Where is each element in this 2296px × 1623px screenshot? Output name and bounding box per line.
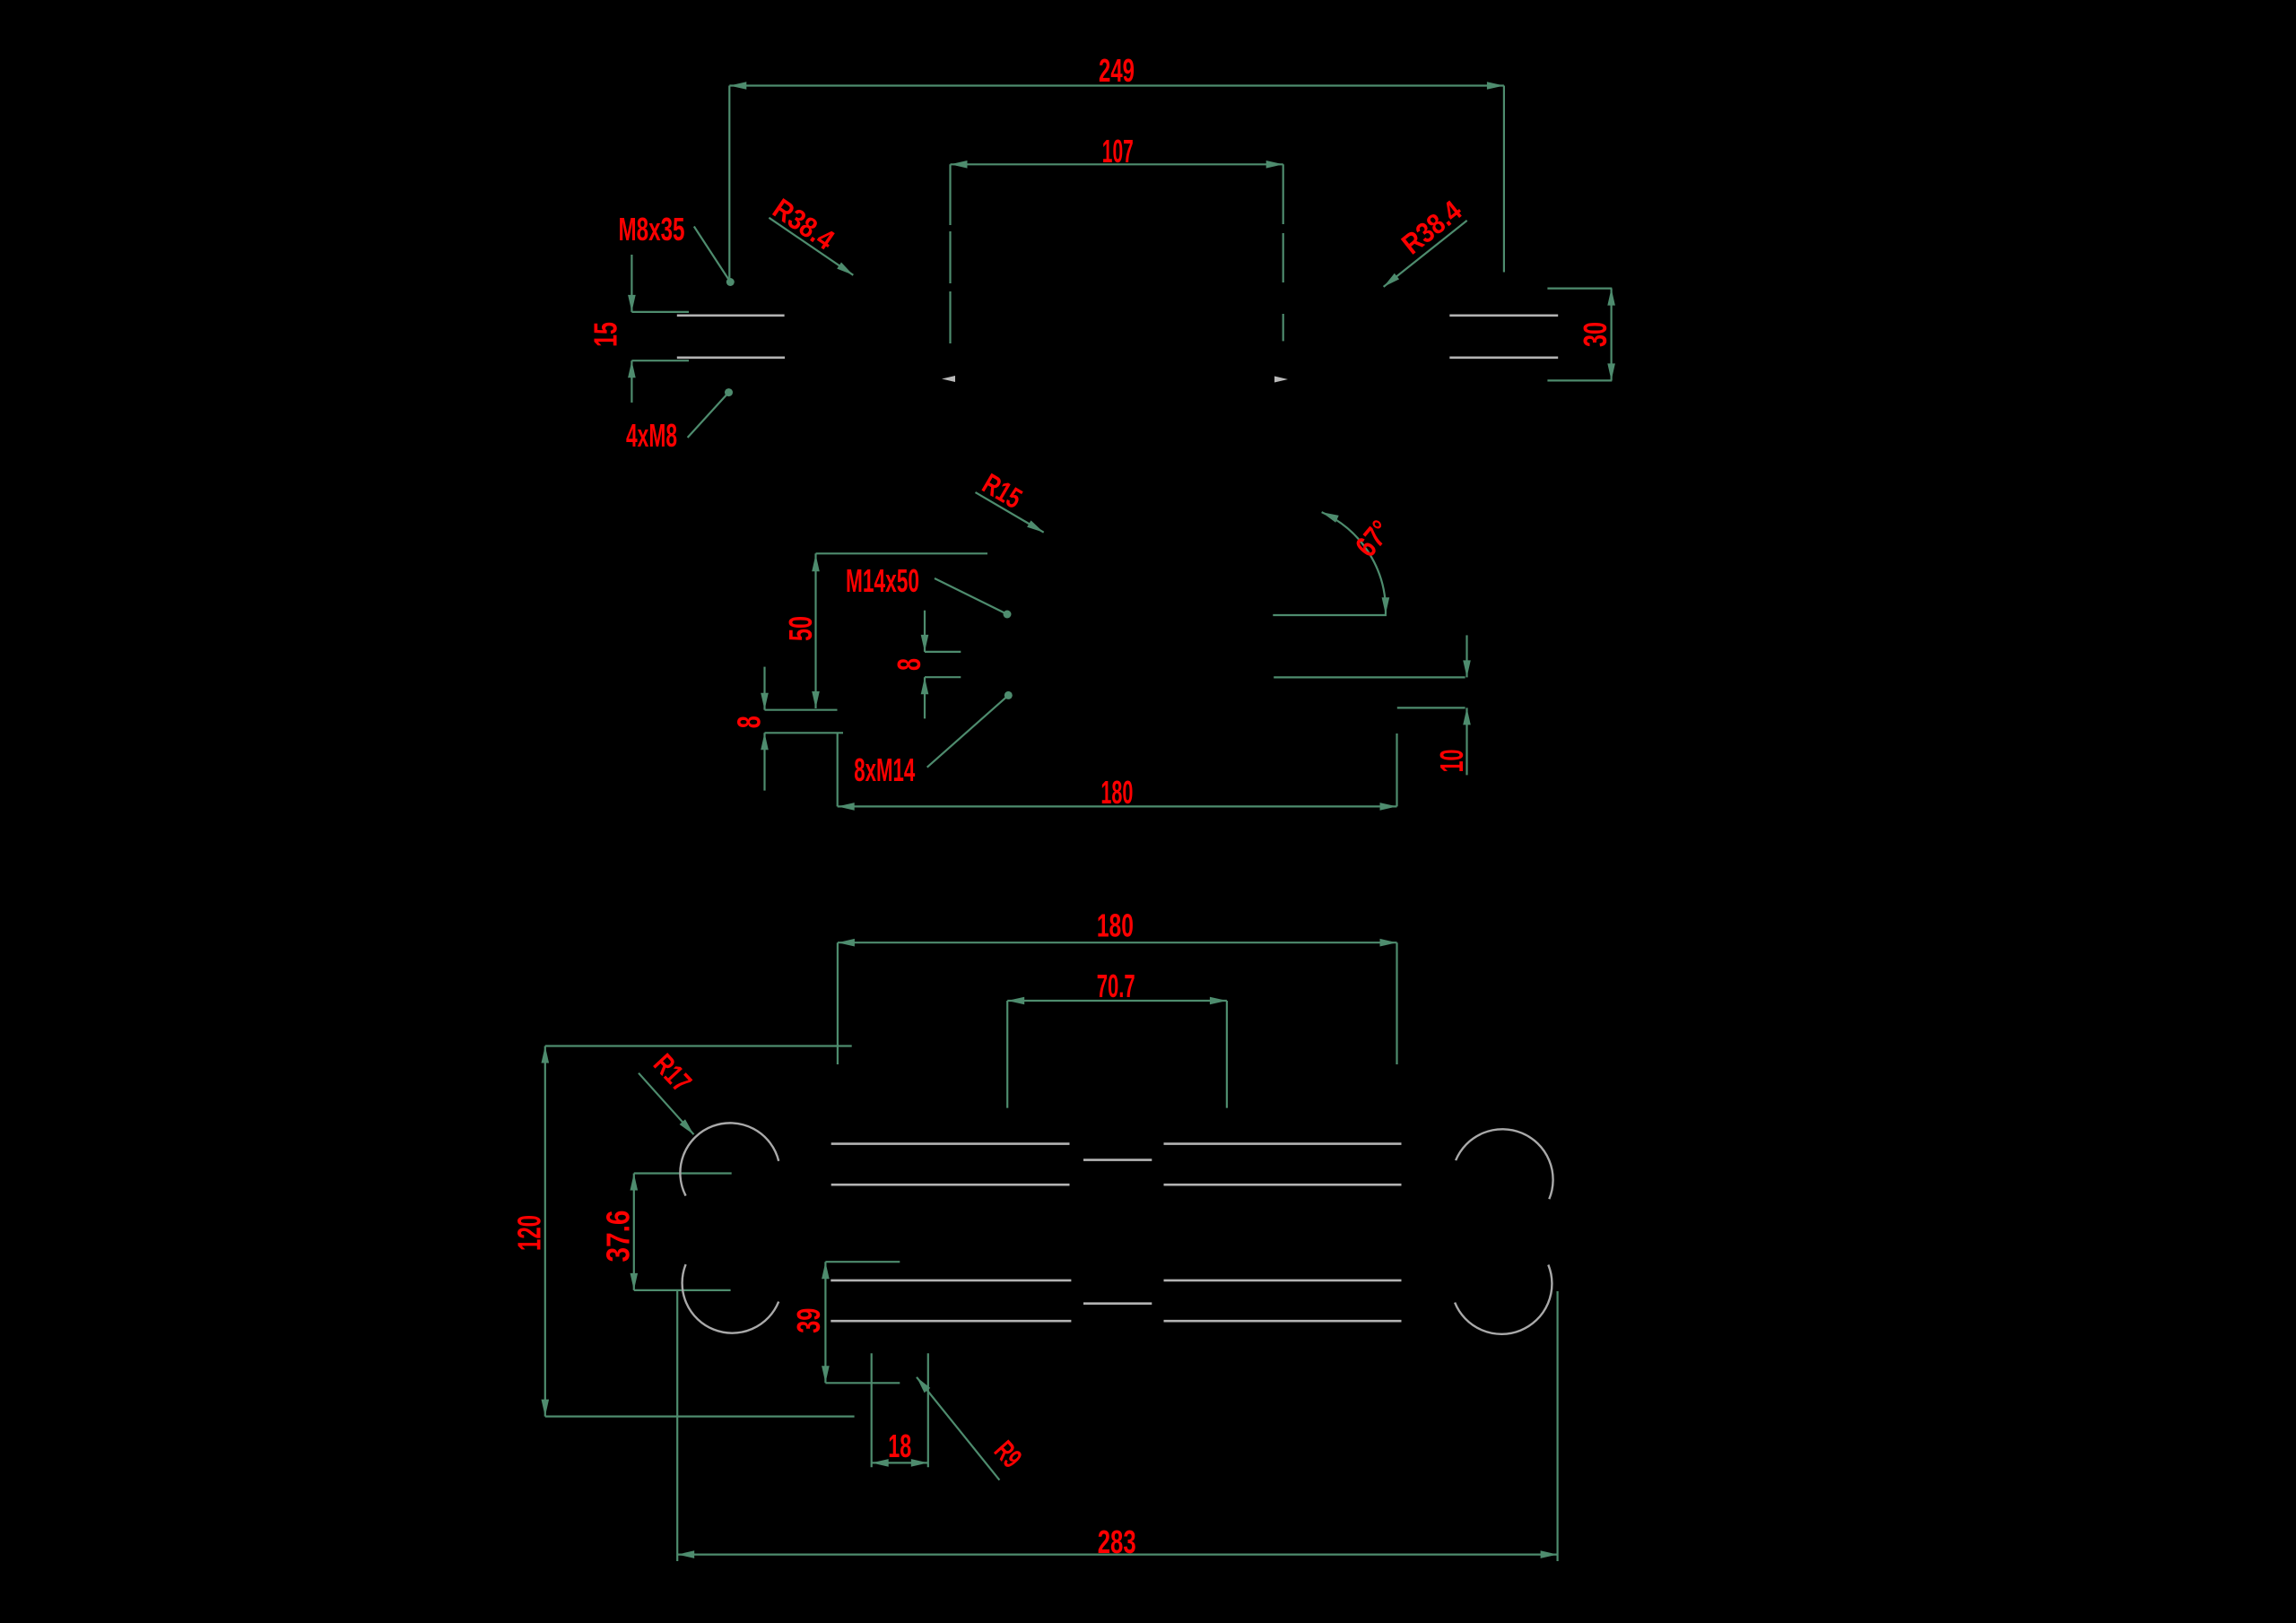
dim 107 left arrow bbox=[951, 161, 968, 169]
svg-text:180: 180 bbox=[1097, 907, 1134, 944]
dimension 249 dim line bbox=[729, 84, 1504, 86]
dim 8 left bottom extension bbox=[765, 732, 844, 733]
dim 180 left arrow bbox=[838, 803, 855, 811]
dim 70.7 left arrow bbox=[1007, 997, 1024, 1005]
dim 50 bottom arrow bbox=[812, 691, 820, 708]
arc R17 upper-right bbox=[1456, 1129, 1552, 1199]
dim 8 mid bottom arrow bbox=[921, 677, 929, 694]
dim 18 right arrow bbox=[911, 1459, 928, 1467]
dim 10 top extension bbox=[1274, 676, 1465, 678]
dim 37.6 bottom arrow bbox=[631, 1273, 639, 1290]
dim 18 left arrow bbox=[872, 1459, 889, 1467]
slot edge lines (top slot) bbox=[831, 1142, 1070, 1145]
small white mark left (cursor artifact) bbox=[942, 376, 955, 382]
dim 180b right extension bbox=[1396, 942, 1397, 1064]
bottom slot middle segment bbox=[1083, 1302, 1152, 1305]
dim 50 top arrow bbox=[812, 554, 820, 571]
dim 249 right extension line bbox=[1503, 86, 1505, 273]
dim 10 bottom extension bbox=[1397, 707, 1465, 708]
dim 37.6 top extension bbox=[634, 1172, 732, 1174]
dim 120 bottom extension bbox=[545, 1415, 855, 1417]
leader M8x35 bbox=[694, 227, 731, 282]
svg-text:37.6: 37.6 bbox=[600, 1211, 637, 1263]
dim 15 top tail bbox=[631, 255, 632, 312]
dim 107 left extension line bbox=[949, 164, 951, 225]
leader R38.4 left bbox=[769, 218, 853, 275]
dim 8 mid top tick bbox=[925, 651, 961, 653]
svg-text:107: 107 bbox=[1102, 133, 1134, 169]
leader R38.4 right bbox=[1384, 221, 1467, 287]
dim 120 bottom arrow bbox=[542, 1400, 550, 1417]
leader dot 8xM14 bbox=[1004, 691, 1013, 699]
dim 283 right arrow bbox=[1541, 1550, 1558, 1558]
svg-text:M8x35: M8x35 bbox=[619, 211, 685, 247]
dim 8 left top extension bbox=[765, 709, 838, 711]
dim 67 horizontal ray bbox=[1273, 614, 1387, 616]
dim 39 bottom extension bbox=[825, 1382, 900, 1384]
svg-text:283: 283 bbox=[1098, 1523, 1136, 1560]
arc R17 lower-right bbox=[1455, 1265, 1552, 1334]
svg-text:M14x50: M14x50 bbox=[846, 562, 919, 599]
dim 30 top arrow bbox=[1607, 289, 1615, 306]
top slot middle segment bbox=[1083, 1159, 1152, 1161]
dim 39 dim line bbox=[824, 1262, 826, 1383]
dim 15 top arrow bbox=[628, 295, 636, 312]
svg-text:4xM8: 4xM8 bbox=[626, 417, 677, 454]
dim 8 mid top tail bbox=[924, 611, 926, 652]
dim 180b right arrow bbox=[1380, 939, 1397, 947]
dim 8 mid bottom tick bbox=[925, 676, 961, 678]
dim 8 left bottom tail bbox=[763, 733, 765, 790]
svg-text:180: 180 bbox=[1100, 774, 1133, 811]
dim 39 bottom arrow bbox=[822, 1366, 830, 1383]
dim 180 dim line bbox=[838, 805, 1397, 807]
svg-text:8: 8 bbox=[891, 658, 927, 671]
leader dot 4xM8 bbox=[725, 388, 733, 396]
dim 37.6 bottom extension bbox=[634, 1289, 731, 1291]
svg-text:50: 50 bbox=[782, 616, 819, 641]
arrow R15 bbox=[1027, 520, 1044, 532]
dim 39 top extension bbox=[825, 1261, 900, 1263]
thread lines right boss (M8 holes) bbox=[1449, 314, 1558, 317]
dim 10 top arrow bbox=[1463, 660, 1471, 677]
dim 8 left top arrow bbox=[761, 693, 769, 710]
dim 70.7 right extension bbox=[1226, 1001, 1228, 1108]
dim 283 right extension bbox=[1556, 1291, 1558, 1561]
dim 30 bottom extension bbox=[1547, 379, 1612, 381]
leader dot M14x50 bbox=[1004, 611, 1012, 619]
dim 70.7 dim line bbox=[1007, 1000, 1227, 1002]
leader dot M8x35 bbox=[726, 278, 735, 286]
leader 4xM8 bbox=[688, 393, 729, 438]
thread lines left boss (M8 holes) bbox=[677, 314, 785, 317]
svg-text:120: 120 bbox=[511, 1215, 548, 1251]
dim 18 left extension bbox=[871, 1353, 873, 1467]
svg-text:18: 18 bbox=[888, 1428, 911, 1464]
arrow R38.4 left bbox=[837, 263, 853, 275]
dim 67 arc bbox=[1322, 512, 1386, 614]
dim 30 top extension bbox=[1547, 288, 1612, 290]
dim 8 mid top arrow bbox=[921, 635, 929, 652]
dim 180 right extension bbox=[1396, 733, 1397, 806]
dim 30 dim line bbox=[1610, 289, 1612, 381]
leader R9 bbox=[917, 1377, 999, 1480]
dim 50 dim line bbox=[814, 553, 816, 708]
dim 37.6 dim line bbox=[633, 1174, 635, 1290]
dim 10 bottom arrow bbox=[1463, 707, 1471, 725]
dim 30 bottom arrow bbox=[1607, 363, 1615, 380]
arrow R38.4 right bbox=[1384, 273, 1400, 287]
dim 8 left top tail bbox=[763, 667, 765, 710]
dim 18 dim line bbox=[872, 1462, 928, 1463]
dim 15 bottom arrow bbox=[628, 360, 636, 378]
dim 39 top arrow bbox=[822, 1262, 830, 1279]
dim 50 top extension bbox=[816, 552, 988, 554]
dim 180 right arrow bbox=[1380, 803, 1397, 811]
dim 249 left arrow bbox=[729, 82, 746, 90]
dim 67 top arrow bbox=[1322, 512, 1339, 523]
dim 67 bottom arrow bbox=[1382, 597, 1390, 614]
arrow R9 bbox=[917, 1377, 930, 1393]
dim 8 left bottom arrow bbox=[761, 733, 769, 750]
dim 180b dim line bbox=[838, 942, 1397, 943]
arc R17 upper-left bbox=[680, 1123, 778, 1195]
dim 283 left arrow bbox=[677, 1550, 694, 1558]
arrow R17 bbox=[680, 1119, 694, 1134]
dim 70.7 left extension bbox=[1006, 1001, 1008, 1108]
dimension 107 dim line bbox=[951, 163, 1283, 165]
leader 8xM14 bbox=[927, 695, 1009, 767]
dim 8 mid bottom tail bbox=[924, 677, 926, 718]
slot edge lines (bottom slot) bbox=[831, 1280, 1071, 1282]
dim 70.7 right arrow bbox=[1210, 997, 1227, 1005]
dim 18 right extension bbox=[927, 1353, 929, 1467]
dim 120 dim line bbox=[544, 1046, 546, 1417]
leader R15 bbox=[976, 492, 1044, 533]
dim 15 bottom tail bbox=[631, 360, 632, 403]
dim 249 left extension line bbox=[728, 86, 730, 283]
dim 15 bottom extension bbox=[631, 360, 689, 361]
dim 10 bottom tail bbox=[1465, 707, 1467, 775]
svg-text:8xM14: 8xM14 bbox=[854, 751, 915, 788]
svg-text:15: 15 bbox=[587, 322, 624, 347]
svg-text:30: 30 bbox=[1577, 322, 1613, 347]
dim 249 right arrow bbox=[1487, 82, 1504, 90]
dim 283 left extension bbox=[676, 1290, 678, 1561]
leader R17 bbox=[639, 1073, 694, 1135]
dim 120 top extension bbox=[545, 1045, 852, 1046]
dim 283 dim line bbox=[677, 1553, 1557, 1555]
dim 107 right arrow bbox=[1266, 161, 1283, 169]
leader M14x50 bbox=[935, 578, 1007, 614]
dim 180b left extension bbox=[837, 942, 839, 1064]
svg-text:10: 10 bbox=[1433, 750, 1470, 773]
arc R17 lower-left bbox=[683, 1264, 779, 1333]
dim 15 top extension bbox=[631, 311, 689, 313]
svg-text:70.7: 70.7 bbox=[1097, 968, 1135, 1004]
svg-text:8: 8 bbox=[731, 716, 768, 728]
dim 10 top tail bbox=[1465, 635, 1467, 677]
dim 180b left arrow bbox=[838, 939, 855, 947]
svg-text:249: 249 bbox=[1099, 52, 1135, 89]
dim 120 top arrow bbox=[542, 1046, 550, 1063]
small white mark right (cursor artifact) bbox=[1274, 377, 1288, 383]
dim 107 right extension line bbox=[1283, 164, 1284, 224]
dim 180 left extension bbox=[837, 733, 839, 806]
dim 37.6 top arrow bbox=[631, 1174, 639, 1191]
svg-text:39: 39 bbox=[790, 1308, 827, 1333]
